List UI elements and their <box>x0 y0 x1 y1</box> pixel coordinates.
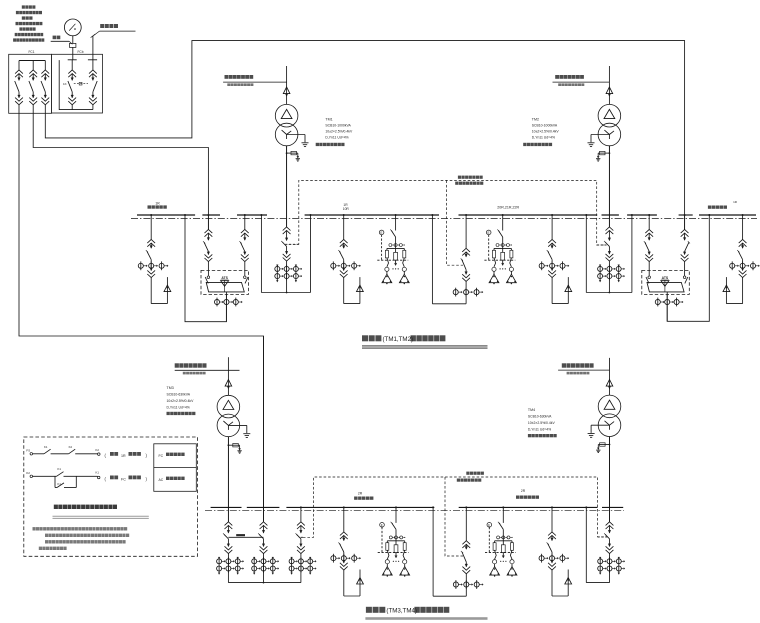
top bus 0.4kV section segment 7 <box>627 214 657 216</box>
top bus junction node x631 <box>631 214 633 216</box>
TM3 changeover column <box>227 437 229 522</box>
svg-text:(TM3,TM4): (TM3,TM4) <box>386 608 417 615</box>
top bus 0.4kV section segment 2 <box>202 214 220 216</box>
svg-text:1R: 1R <box>733 200 738 204</box>
drawout switch column Q2 in FC1 <box>32 61 34 71</box>
interlock line label bottom <box>466 472 469 475</box>
bottom bus 0.4kV segment 4 <box>459 506 598 508</box>
top bus 0.4kV section segment 9 <box>699 214 756 216</box>
TM4 tie riser <box>585 507 587 582</box>
diesel generator text block <box>22 5 25 8</box>
interlock line label top <box>458 176 461 179</box>
svg-text:K2: K2 <box>26 471 30 475</box>
fixed contact bar col QG2 <box>88 59 97 61</box>
TM2 HV riser <box>608 66 610 104</box>
ATS1 output CT group <box>214 299 219 304</box>
transformer TM4 <box>598 395 621 418</box>
bottom bus 0.4kV segment 3 <box>286 506 434 508</box>
feeder breaker cable outgoing 1 <box>150 215 152 240</box>
svg-text:D,Yn11 Ud=4%: D,Yn11 Ud=4% <box>167 406 190 410</box>
TM4 incoming label <box>562 363 566 367</box>
wire gen feed to lower changeover col2 <box>19 113 264 522</box>
drawout switch column Q3 in FC1 <box>44 61 46 71</box>
svg-text:(: ( <box>105 476 107 481</box>
ATS2 right input drawout breaker <box>684 215 686 230</box>
top bus 0.4kV section segment 8 <box>679 214 693 216</box>
wire gen feed to ATS2 right <box>45 41 684 230</box>
relay caption heading <box>54 505 58 509</box>
label mains incoming with leader <box>100 24 104 28</box>
feeder breaker cable outgoing 6 <box>551 507 553 532</box>
TM3 incoming label <box>175 363 179 367</box>
svg-text:D,Yn11 Ud=4%: D,Yn11 Ud=4% <box>325 136 348 140</box>
svg-text:D,Yn11 Ud=4%: D,Yn11 Ud=4% <box>528 428 551 432</box>
svg-text:FCb: FCb <box>77 50 83 54</box>
top bus junction node x343 <box>343 214 345 216</box>
TM2 incoming label <box>555 75 559 79</box>
fixed contact bar col QG1 <box>68 59 77 61</box>
top bus 0.4kV section segment 6 <box>602 214 619 216</box>
interlock control line (dashed) bottom <box>303 477 607 537</box>
svg-text:20R,21R,22R: 20R,21R,22R <box>497 205 519 209</box>
transformer TM1 <box>275 104 298 127</box>
feeder breaker cable outgoing 5 <box>343 507 345 532</box>
svg-text:10±2×2.5%/0.4kV: 10±2×2.5%/0.4kV <box>325 130 353 134</box>
top bus junction node x244 <box>244 214 246 216</box>
TM1 incoming label <box>225 75 229 79</box>
svg-text:SCB10-630kVA: SCB10-630kVA <box>167 393 191 397</box>
feeder breaker cable outgoing 3 <box>551 215 553 240</box>
TM2 tie bar <box>586 292 632 294</box>
ATS2 left input drawout breaker <box>648 215 650 230</box>
svg-text:(: ( <box>105 453 107 458</box>
svg-text:K1: K1 <box>96 471 100 475</box>
top bus junction node x649 <box>648 214 650 216</box>
bus tie breaker 2R <box>465 507 467 540</box>
svg-text:1K: 1K <box>63 82 67 86</box>
TM2 LV surge arrester <box>598 152 609 154</box>
svg-text:(TM1,TM2): (TM1,TM2) <box>383 336 414 343</box>
svg-text:FS: FS <box>26 449 30 453</box>
bottom bus junction node x552 <box>551 506 553 508</box>
top bus junction node x742 <box>742 214 744 216</box>
interlock control line (dashed) top <box>289 180 607 245</box>
top bus junction node x586 <box>585 214 587 216</box>
feeder breaker cable outgoing 4 <box>742 215 744 240</box>
automatic transfer switch ATS1 <box>201 270 249 294</box>
TM3 LV lead <box>227 437 229 522</box>
svg-text:E: E <box>488 231 490 235</box>
generator G1 circle <box>64 19 81 36</box>
TM3 surge arrester <box>225 380 232 387</box>
TM1 LV surge arrester <box>287 152 298 154</box>
svg-text:D,Yn11 Ud=4%: D,Yn11 Ud=4% <box>532 136 555 140</box>
bottom bus 0.4kV segment 1 <box>211 506 242 508</box>
top bus junction node x684 <box>684 214 686 216</box>
voltage transformer cubicle PT4 <box>502 507 504 523</box>
svg-text:FC: FC <box>159 454 164 458</box>
svg-text:FC1: FC1 <box>28 50 34 54</box>
TM3 HV riser <box>227 357 229 395</box>
top bus junction node x502 <box>502 214 504 216</box>
gen-feed changeover column <box>263 336 265 522</box>
interlock branch to bus tie bottom <box>445 477 463 556</box>
TM2 LV lead <box>608 146 610 227</box>
svg-text:): ) <box>146 453 148 458</box>
bus supply column with CTs <box>300 507 302 521</box>
TM1 incomer column with CTs <box>286 146 288 227</box>
drawout switch column QG1 <box>71 60 73 70</box>
svg-text:1R: 1R <box>155 201 160 205</box>
wire ATS2 return to bus <box>667 215 709 321</box>
svg-text:): ) <box>146 476 148 481</box>
TM4 HV riser <box>609 358 611 395</box>
top bus junction node x395 <box>395 214 397 216</box>
relay caption underline <box>53 515 149 517</box>
bottom bus junction node x466 <box>465 506 467 508</box>
wire breaker box to cubicle bar <box>72 47 74 59</box>
svg-text:E: E <box>488 523 490 527</box>
bottom bus junction node x343 <box>343 506 345 508</box>
title TM1 TM2 diagram <box>362 335 368 341</box>
relay row2 circuit <box>30 475 33 478</box>
svg-text:TM3: TM3 <box>167 386 174 390</box>
changeover output bar <box>228 582 301 584</box>
svg-text:AC: AC <box>159 478 164 482</box>
top bus dash-dot line <box>131 217 757 219</box>
top bus junction node x208 <box>207 214 209 216</box>
relay notes line 1 <box>33 527 36 530</box>
bottom bus junction node x503 <box>502 506 504 508</box>
bottom bus dash-dot line <box>205 510 624 512</box>
top bus junction node x466 <box>465 214 467 216</box>
relay row1 circuit <box>30 453 33 456</box>
top bus junction node x552 <box>551 214 553 216</box>
TM1 tie riser left <box>260 215 262 293</box>
svg-text:10±2×2.5%/0.4kV: 10±2×2.5%/0.4kV <box>528 421 556 425</box>
cubicle bus bar FC1 <box>19 60 45 62</box>
top bus junction node x709 <box>708 214 710 216</box>
bus tie breaker 1R <box>465 215 467 248</box>
TM4 tie bar <box>586 582 609 584</box>
svg-text:K1: K1 <box>58 482 62 486</box>
bottom bus 0.4kV segment 5 <box>602 506 623 508</box>
cubicle FC1 outline <box>9 54 52 113</box>
inner cubicle frame <box>59 60 93 110</box>
changeover interlock bar <box>228 536 263 538</box>
svg-text:SCB10-630kVA: SCB10-630kVA <box>528 415 552 419</box>
voltage transformer cubicle PT2 <box>502 215 504 231</box>
top bus junction node x261 <box>260 214 262 216</box>
TM3 LV surge arrester <box>228 444 239 446</box>
automatic transfer switch ATS2 <box>642 270 690 294</box>
svg-text:1R: 1R <box>121 454 126 458</box>
svg-text:10±2×2.5%/0.4kV: 10±2×2.5%/0.4kV <box>532 130 560 134</box>
TM2 surge arrester <box>606 87 613 94</box>
wire gen feed to ATS1 left <box>33 113 208 229</box>
ATS1 left input drawout breaker <box>207 215 209 230</box>
top bus junction node x432 <box>431 214 433 216</box>
TM1 HV riser <box>286 66 288 104</box>
TM2 incomer column with CTs <box>608 146 610 227</box>
transformer TM3 <box>217 395 240 418</box>
ATS2 output CT group <box>655 299 660 304</box>
cubicle FCb outline <box>52 54 103 113</box>
svg-text:FC: FC <box>121 477 126 481</box>
svg-text:10±2×2.5%/0.4kV: 10±2×2.5%/0.4kV <box>167 399 195 403</box>
top bus 0.4kV section segment 1 <box>137 214 195 216</box>
title TM3 TM4 diagram <box>366 607 372 613</box>
svg-text:K2: K2 <box>69 445 73 449</box>
TM1 surge arrester <box>283 87 290 94</box>
TM1 LV lead <box>286 146 288 227</box>
relay notes line 4 <box>39 547 42 550</box>
bottom bus junction node x433 <box>432 506 434 508</box>
svg-text:TM4: TM4 <box>528 408 535 412</box>
bottom bus junction node x396 <box>395 506 397 508</box>
interlock branch to bus tie top <box>447 180 464 265</box>
svg-text:E: E <box>381 523 383 527</box>
svg-text:2R: 2R <box>521 489 526 493</box>
relay logic dashed frame <box>24 437 198 556</box>
TM4 surge arrester <box>606 380 613 387</box>
top bus junction node x185 <box>184 214 186 216</box>
drawout switch column QG2 <box>92 60 94 70</box>
bottom bus junction node x300 <box>300 506 302 508</box>
wire generator to breaker box <box>72 36 74 44</box>
transformer TM2 <box>598 104 621 127</box>
svg-text:K1: K1 <box>44 445 48 449</box>
svg-text:K1: K1 <box>58 467 62 471</box>
TM4 LV surge arrester <box>598 444 609 446</box>
top bus 0.4kV section segment 4 <box>305 214 439 216</box>
top bus 0.4kV section segment 5 <box>459 214 598 216</box>
TM1 tie bar <box>261 292 310 294</box>
label QF0 with leader <box>53 36 57 40</box>
TM2 tie riser left <box>585 215 587 293</box>
svg-text:10R: 10R <box>343 207 350 211</box>
svg-text:SCB10-1000kVA: SCB10-1000kVA <box>325 123 351 127</box>
mains riser wire with tick <box>92 36 94 60</box>
bottom bus 0.4kV segment 2 <box>247 506 280 508</box>
svg-text:TM1: TM1 <box>325 117 332 121</box>
TM1 tie riser right <box>310 215 312 293</box>
bottom bus junction node x586 <box>585 506 587 508</box>
top bus junction node x151 <box>150 214 152 216</box>
TM4 incomer column with CTs <box>609 437 611 522</box>
svg-text:2R: 2R <box>358 491 363 495</box>
voltage transformer cubicle PT1 <box>395 215 397 231</box>
svg-text:E: E <box>380 231 382 235</box>
feeder breaker cable outgoing 2 <box>343 215 345 240</box>
top bus 0.4kV section segment 3 <box>237 214 267 216</box>
top bus junction node x310 <box>309 214 311 216</box>
voltage transformer cubicle PT3 <box>395 507 397 523</box>
relay notes line 3 <box>45 540 48 543</box>
wire ATS1 return to bus 1R <box>185 215 226 322</box>
TM2 tie riser right <box>631 215 633 293</box>
TM4 LV lead <box>609 437 611 522</box>
svg-text:SCB10-1000kVA: SCB10-1000kVA <box>532 123 558 127</box>
drawout switch column Q1 in FC1 <box>18 61 20 71</box>
ATS1 right input drawout breaker <box>244 215 246 230</box>
relay notes line 2 <box>45 534 48 537</box>
generator breaker QF0 box <box>70 43 76 47</box>
svg-text:K2: K2 <box>96 448 100 452</box>
relay output device box <box>154 444 197 492</box>
svg-text:TM2: TM2 <box>532 117 539 121</box>
